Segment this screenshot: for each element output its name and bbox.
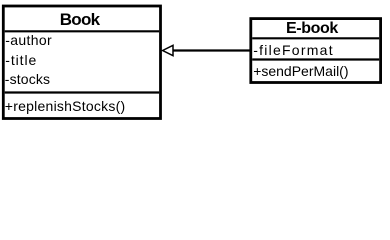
class Book box outline: [3, 6, 160, 119]
class Book title "Book": [60, 11, 100, 28]
attribute -title: [5, 53, 37, 67]
inheritance arrow hollow triangle head: [163, 45, 173, 55]
Book divider above methods: [5, 91, 159, 93]
method +sendPerMail(): [253, 64, 348, 78]
E-book divider above methods: [252, 58, 379, 60]
inheritance arrow shaft wire (E-book to Book): [172, 49, 251, 51]
attribute -fileFormat: [253, 43, 334, 57]
attribute -author: [5, 33, 52, 47]
class E-book title "E-book": [286, 21, 338, 37]
Book divider under title: [5, 30, 159, 32]
attribute -stocks: [5, 72, 50, 86]
method +replenishStocks(): [5, 99, 126, 113]
E-book divider under title: [252, 37, 379, 39]
class E-book box outline: [251, 19, 381, 83]
